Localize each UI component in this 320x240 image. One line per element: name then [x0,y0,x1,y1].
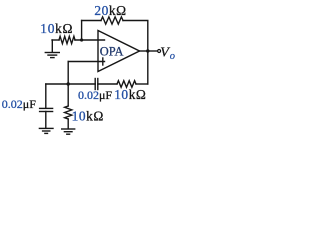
resistor R1 10k left [59,36,75,43]
wire R1 to op-amp minus input [75,39,105,41]
resistor R4 vertical 10k [65,106,72,119]
svg-text:10kΩ: 10kΩ [72,108,104,123]
node C bottom junction [67,82,70,85]
svg-text:V: V [160,46,170,61]
wire noninverting input [68,61,104,63]
svg-text:20kΩ: 20kΩ [94,3,126,18]
ground bottom-left [39,128,54,133]
op-amp plus sign [102,58,104,65]
capacitor C2 series plate left [94,79,96,90]
capacitor C1 plate bottom [40,111,53,113]
wire feedback top right [123,21,148,52]
capacitor C2 series plate right [97,79,99,90]
ground left (top) [45,53,60,58]
svg-text:0.02μF: 0.02μF [2,97,36,111]
wire right vertical lower [147,51,149,84]
wire feedback top left [82,20,101,22]
capacitor C1 plate top [40,107,53,109]
wire feedback left riser [81,21,83,41]
ground riser left [51,40,53,52]
wire op-amp output [140,50,148,52]
node A inverting junction [80,38,83,41]
wire bottom left [46,83,95,85]
wire R4 branch upper lead [67,84,69,106]
svg-text:0.02μF: 0.02μF [78,88,112,102]
svg-text:o: o [170,51,175,62]
wire cap to ground [45,112,47,128]
resistor R2 20k feedback [101,17,123,24]
svg-text:OPA: OPA [100,45,124,59]
ground bottom-middle [61,129,75,134]
terminal Vo circle [158,50,161,53]
svg-text:10kΩ: 10kΩ [114,87,146,102]
wire cap to resistor [98,83,117,85]
wire R4 to ground [67,119,69,128]
wire plus riser [67,62,69,85]
wire inverting input row [52,39,59,41]
node B output junction [146,49,149,52]
resistor R3 series 10k [117,81,136,88]
op-amp U1 triangle [98,31,140,72]
svg-text:10kΩ: 10kΩ [40,21,73,36]
wire output to terminal [148,50,158,52]
wire left cap branch [45,84,47,108]
wire bottom right [136,83,148,85]
